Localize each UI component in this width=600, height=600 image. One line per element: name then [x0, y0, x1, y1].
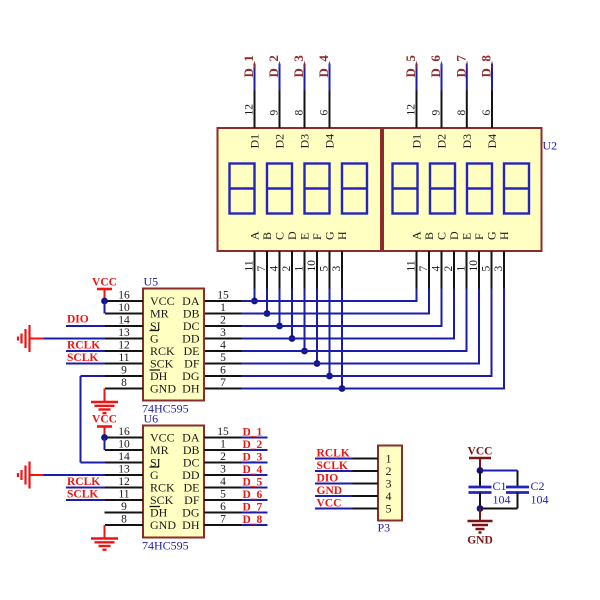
svg-text:12: 12	[406, 104, 418, 116]
U6 left pin 14 (SI)	[105, 451, 143, 463]
junction VCC/U6 pin16	[101, 434, 108, 441]
U6 right pin 3 (DD)	[204, 464, 242, 476]
part value 74HC595 (U5)	[142, 402, 189, 416]
net label D_4 (U6)	[243, 464, 263, 476]
net label DIO	[67, 314, 89, 326]
svg-text:D_5: D_5	[403, 55, 418, 78]
U5 left pin 14 (SI)	[105, 315, 143, 327]
svg-text:U6: U6	[144, 412, 159, 426]
svg-text:6: 6	[481, 110, 493, 116]
svg-text:15: 15	[217, 426, 229, 438]
svg-text:DH: DH	[182, 518, 200, 532]
svg-text:GND: GND	[150, 518, 176, 532]
P3 pin 1	[353, 452, 392, 466]
net label RCLK (U6)	[67, 476, 100, 488]
wire net D_7 (U6)	[242, 512, 268, 514]
P3 pin 3	[353, 477, 392, 491]
U5 right pin 5 (DF)	[204, 352, 242, 364]
svg-text:4: 4	[220, 340, 226, 352]
U6 left pin 8 (GND)	[105, 514, 143, 526]
wire net D_4	[329, 64, 331, 91]
wire segment row DD	[242, 338, 456, 340]
DS1 bottom pin 7 (B)	[256, 251, 268, 289]
wire VCC to U5 pin10	[104, 300, 106, 314]
DS1 bottom pin 1 (E)	[294, 251, 306, 289]
svg-text:D_6: D_6	[428, 55, 443, 78]
svg-text:14: 14	[118, 451, 130, 463]
svg-text:12: 12	[118, 340, 130, 352]
wire DS1 A to bus row 1	[254, 289, 256, 302]
net label RCLK (P3)	[317, 448, 350, 460]
svg-text:RCLK: RCLK	[67, 340, 100, 352]
wire DS1 E to bus row 5	[304, 289, 306, 352]
DS1 bottom pin 11 (A)	[244, 251, 256, 289]
junction DS1 F	[314, 360, 321, 367]
DS1 bottom pin 4 (C)	[269, 251, 281, 289]
wire C2 bottom lead	[517, 493, 519, 509]
U6 left pin 11 (SCK)	[105, 489, 143, 501]
wire U2 B to bus row 2	[428, 289, 430, 315]
display DS1 digit 3 segments	[305, 164, 330, 214]
U2 pin name E	[460, 233, 474, 240]
U6 right pin 2 (DC)	[204, 451, 242, 463]
net label D_8 (U6)	[243, 514, 263, 526]
DS1 pin name G	[323, 231, 337, 240]
svg-text:C1: C1	[493, 479, 507, 493]
svg-text:H: H	[497, 231, 511, 240]
U2 pin name D	[447, 231, 461, 240]
U2 top pin 12 (D1)	[406, 91, 418, 129]
DS1 pin name D4	[323, 134, 337, 149]
svg-text:8: 8	[294, 110, 306, 116]
svg-text:D_3: D_3	[291, 55, 306, 78]
svg-text:1: 1	[220, 439, 226, 451]
net label RCLK (U5)	[67, 340, 100, 352]
svg-text:D4: D4	[485, 134, 499, 149]
U5 right pin 7 (DH)	[204, 377, 242, 389]
net label D_1	[241, 55, 256, 77]
svg-text:D1: D1	[248, 134, 262, 149]
U5 left pin 13 (G)	[105, 327, 143, 339]
U6 left pin 9 (DH)	[105, 501, 143, 513]
svg-text:2: 2	[220, 315, 226, 327]
net label D_3	[291, 55, 306, 78]
wire C2 top lead	[517, 471, 519, 488]
power port VCC (U6)	[92, 414, 117, 438]
svg-text:3: 3	[331, 266, 343, 272]
wire U2 E to bus row 5	[466, 289, 468, 353]
net label D_6	[428, 55, 443, 78]
wire DS1 B to bus row 2	[266, 289, 268, 314]
wire C1 top lead	[479, 471, 481, 488]
junction DS1 D	[289, 335, 296, 342]
svg-text:5: 5	[319, 266, 331, 272]
svg-text:D_6: D_6	[243, 489, 263, 501]
display DS1 digit 2 segments	[267, 164, 292, 214]
DS1 bottom pin 10 (F)	[306, 251, 318, 289]
svg-text:7: 7	[256, 266, 268, 272]
wire U2 G to bus row 7	[491, 289, 493, 378]
svg-text:10: 10	[118, 439, 130, 451]
svg-text:12: 12	[118, 476, 130, 488]
U6 left pin 13 (G)	[105, 464, 143, 476]
net label D_7	[453, 55, 468, 78]
net label GND (P3)	[317, 485, 343, 497]
svg-text:6: 6	[220, 501, 226, 513]
junction DS1 A	[251, 298, 258, 305]
svg-text:3: 3	[493, 266, 505, 272]
junction DS1 B	[264, 310, 271, 317]
svg-text:8: 8	[121, 377, 127, 389]
wire net D_6	[441, 64, 443, 91]
DS1 top pin 9 (D2)	[269, 91, 281, 129]
U6 left pin 16 (VCC)	[105, 426, 143, 438]
display U2 digit 2 segments	[430, 164, 455, 214]
U5 left pin 8 (GND)	[105, 377, 143, 389]
designator C1	[493, 479, 507, 493]
svg-text:4: 4	[220, 476, 226, 488]
designator U2	[543, 139, 558, 153]
svg-text:11: 11	[406, 260, 418, 271]
display U2 digit 1 segments	[393, 164, 418, 214]
U5 left pin 16 (VCC)	[105, 290, 143, 302]
wire net D_1 (U6)	[242, 437, 268, 439]
wire DS1 G to bus row 7	[329, 289, 331, 377]
value 104 (C2)	[531, 493, 549, 507]
wire DS1 D to bus row 4	[291, 289, 293, 339]
net label D_5	[403, 55, 418, 78]
svg-text:4: 4	[431, 266, 443, 272]
wire SCLK to U5 pin11	[66, 363, 105, 365]
U2 pin name F	[472, 233, 486, 240]
junction VCC/U5 pin16	[101, 298, 108, 305]
svg-text:D_7: D_7	[453, 55, 468, 78]
ground symbol GND (caps)	[467, 509, 493, 547]
svg-text:RCLK: RCLK	[317, 448, 350, 460]
svg-text:VCC: VCC	[92, 414, 117, 426]
net label SCLK (U5)	[67, 352, 98, 364]
svg-text:SCLK: SCLK	[67, 352, 98, 364]
DS1 top pin 6 (D4)	[319, 91, 331, 129]
U2 pin name H	[497, 231, 511, 240]
wire segment row DE	[242, 350, 468, 352]
svg-text:10: 10	[306, 260, 318, 272]
svg-text:2: 2	[220, 451, 226, 463]
svg-text:16: 16	[118, 290, 130, 302]
U2 top pin 9 (D2)	[431, 91, 443, 129]
wire net D_7	[466, 64, 468, 91]
junction DS1 H	[339, 385, 346, 392]
svg-text:U5: U5	[144, 275, 159, 289]
U6 right pin 1 (DB)	[204, 439, 242, 451]
svg-text:D_3: D_3	[243, 452, 263, 464]
net label D_3 (U6)	[243, 452, 263, 464]
wire net SCLK (P3)	[315, 470, 353, 472]
U2 pin name B	[422, 232, 436, 240]
U5 right pin 4 (DE)	[204, 340, 242, 352]
DS1 pin name C	[273, 232, 287, 240]
svg-text:5: 5	[220, 352, 226, 364]
svg-text:P3: P3	[378, 521, 391, 535]
U6 right pin 15 (DA)	[204, 426, 242, 438]
part value 74HC595 (U6)	[142, 539, 189, 553]
U2 bottom pin 5 (G)	[481, 251, 493, 289]
U2 bottom pin 11 (A)	[406, 251, 418, 289]
svg-text:GND: GND	[317, 485, 343, 497]
svg-text:5: 5	[481, 266, 493, 272]
wire U2 D to bus row 4	[453, 289, 455, 340]
wire U2 F to bus row 6	[478, 289, 480, 365]
svg-text:4: 4	[269, 266, 281, 272]
U2 pin name G	[485, 231, 499, 240]
net label D_5 (U6)	[243, 477, 263, 489]
DS1 pin name E	[298, 233, 312, 240]
wire SCLK to U6 pin11	[66, 499, 105, 501]
svg-text:D_2: D_2	[266, 55, 281, 77]
svg-text:7: 7	[418, 266, 430, 272]
U5 left pin 9 (DH)	[105, 365, 143, 377]
DS1 pin name D1	[248, 134, 262, 149]
U5 left pin 12 (RCK)	[105, 340, 143, 352]
wire segment row DC	[242, 325, 443, 327]
P3 pin 5	[353, 502, 392, 516]
svg-text:74HC595: 74HC595	[142, 539, 189, 553]
svg-text:VCC: VCC	[92, 277, 117, 289]
wire RCLK to U5 pin12	[66, 350, 105, 352]
wire net D_4 (U6)	[242, 474, 268, 476]
wire U5 pin9 DH' to U6 pin14 SI	[81, 376, 106, 463]
svg-text:104: 104	[493, 493, 511, 507]
svg-text:12: 12	[244, 104, 256, 116]
wire C1 bottom lead	[479, 493, 481, 509]
U5 right pin 3 (DD)	[204, 327, 242, 339]
svg-text:7: 7	[220, 514, 226, 526]
capacitor C1	[469, 487, 492, 493]
svg-text:9: 9	[431, 110, 443, 116]
U6 right pin 7 (DH)	[204, 514, 242, 526]
svg-text:D_8: D_8	[243, 514, 263, 526]
wire RCLK to U6 pin12	[66, 487, 105, 489]
wire net GND (P3)	[315, 495, 353, 497]
U2 bottom pin 3 (H)	[493, 251, 505, 289]
wire segment row DF	[242, 363, 481, 365]
power port VCC (U5)	[92, 277, 117, 302]
display U2 digit 4 segments	[504, 164, 529, 214]
U5 pin names	[150, 294, 200, 396]
svg-text:9: 9	[121, 501, 127, 513]
net label DIO (P3)	[317, 473, 339, 485]
U5 right pin 1 (DB)	[204, 302, 242, 314]
svg-text:6: 6	[220, 365, 226, 377]
DS1 top pin 8 (D3)	[294, 91, 306, 129]
svg-text:GND: GND	[150, 382, 176, 396]
U6 left pin 12 (RCK)	[105, 476, 143, 488]
svg-text:D_4: D_4	[243, 464, 263, 476]
svg-text:13: 13	[118, 327, 130, 339]
P3 pin 2	[353, 464, 392, 478]
wire VCC to U6 pin10	[104, 437, 106, 451]
svg-text:D_1: D_1	[241, 55, 256, 77]
wire net RCLK (P3)	[315, 458, 353, 460]
svg-text:5: 5	[386, 502, 392, 516]
svg-text:SCLK: SCLK	[67, 489, 98, 501]
U2 bottom pin 4 (C)	[431, 251, 443, 289]
P3 pin 4	[353, 489, 392, 503]
ground symbol (U6 pin8 GND)	[91, 525, 118, 550]
wire net D_2	[279, 64, 281, 91]
net label D_7 (U6)	[243, 502, 263, 514]
wire U2 H to bus row 8	[503, 289, 505, 390]
wire ground to U6 pin13	[44, 474, 106, 476]
U5 right pin 6 (DG)	[204, 365, 242, 377]
net label SCLK (U6)	[67, 489, 98, 501]
wire net D_8	[491, 64, 493, 91]
value 104 (C1)	[493, 493, 511, 507]
wire net D_3	[304, 64, 306, 91]
wire net D_1	[254, 64, 256, 91]
connector P3 body	[378, 446, 402, 521]
net label VCC (P3)	[317, 498, 342, 510]
DS1 pin name D2	[273, 134, 287, 149]
net label SCLK (P3)	[317, 460, 348, 472]
svg-text:104: 104	[531, 493, 549, 507]
junction DS1 C	[276, 323, 283, 330]
svg-text:D2: D2	[273, 134, 287, 149]
svg-text:6: 6	[319, 110, 331, 116]
wire net D_2 (U6)	[242, 449, 268, 451]
svg-text:U2: U2	[543, 139, 558, 153]
DS1 pin name F	[310, 233, 324, 240]
wire DS1 H to bus row 8	[341, 289, 343, 389]
svg-text:D_7: D_7	[243, 502, 263, 514]
DS1 pin name A	[248, 231, 262, 240]
junction DS1 G	[326, 373, 333, 380]
DS1 pin name H	[335, 231, 349, 240]
DS1 pin name B	[260, 232, 274, 240]
U2 bottom pin 10 (F)	[468, 251, 480, 289]
svg-text:D_1: D_1	[243, 427, 263, 439]
U2 top pin 6 (D4)	[481, 91, 493, 129]
U6 left pin 10 (MR)	[105, 439, 143, 451]
svg-text:14: 14	[118, 315, 130, 327]
shift register U6 body	[143, 426, 204, 538]
svg-text:5: 5	[220, 489, 226, 501]
svg-text:1: 1	[220, 302, 226, 314]
svg-text:D3: D3	[298, 134, 312, 149]
DS1 bottom pin 5 (G)	[319, 251, 331, 289]
wire segment row DG	[242, 375, 493, 377]
ground symbol (U6 pin13 G)	[18, 462, 44, 489]
svg-text:D_8: D_8	[479, 55, 494, 78]
designator P3	[378, 521, 391, 535]
display module U2 body	[383, 128, 542, 251]
svg-text:8: 8	[456, 110, 468, 116]
wire U2 C to bus row 3	[441, 289, 443, 328]
power port VCC (caps)	[468, 446, 493, 471]
svg-text:3: 3	[220, 327, 226, 339]
svg-text:H: H	[335, 231, 349, 240]
wire net D_5	[416, 64, 418, 91]
U2 pin name C	[435, 232, 449, 240]
wire segment row DB	[242, 313, 431, 315]
wire net DIO (P3)	[315, 483, 353, 485]
U5 left pin 10 (MR)	[105, 302, 143, 314]
svg-text:D_2: D_2	[243, 439, 263, 451]
U6 right pin 5 (DF)	[204, 489, 242, 501]
svg-text:16: 16	[118, 426, 130, 438]
DS1 pin name D	[285, 231, 299, 240]
svg-text:D2: D2	[435, 134, 449, 149]
svg-text:D4: D4	[323, 134, 337, 149]
svg-text:D_4: D_4	[316, 55, 331, 78]
net label D_1 (U6)	[243, 427, 263, 439]
net label D_8	[479, 55, 494, 78]
designator U5	[144, 275, 159, 289]
U2 top pin 8 (D3)	[456, 91, 468, 129]
svg-text:15: 15	[217, 290, 229, 302]
net label D_6 (U6)	[243, 489, 263, 501]
svg-text:10: 10	[118, 302, 130, 314]
svg-text:VCC: VCC	[317, 498, 342, 510]
U2 pin name D4	[485, 134, 499, 149]
svg-text:2: 2	[281, 266, 293, 272]
display DS1 digit 4 segments	[342, 164, 367, 214]
wire segment row DH	[242, 388, 506, 390]
display DS1 digit 1 segments	[230, 164, 255, 214]
designator C2	[531, 479, 545, 493]
svg-text:7: 7	[220, 377, 226, 389]
svg-text:DH: DH	[182, 382, 200, 396]
display module DS1 body	[218, 128, 382, 251]
svg-text:C2: C2	[531, 479, 545, 493]
wire GND node	[480, 508, 518, 510]
U5 right pin 2 (DC)	[204, 315, 242, 327]
DS1 bottom pin 3 (H)	[331, 251, 343, 289]
svg-text:D1: D1	[410, 134, 424, 149]
svg-text:1: 1	[456, 266, 468, 272]
svg-text:DIO: DIO	[67, 314, 89, 326]
wire VCC node to C2	[480, 470, 518, 472]
U2 pin name D1	[410, 134, 424, 149]
U5 left pin 11 (SCK)	[105, 352, 143, 364]
U6 pin names	[150, 431, 200, 533]
svg-text:VCC: VCC	[468, 446, 493, 458]
ground symbol (U5 pin13 G)	[18, 325, 44, 352]
U2 bottom pin 7 (B)	[418, 251, 430, 289]
svg-text:11: 11	[244, 260, 256, 271]
U2 pin name A	[410, 231, 424, 240]
svg-text:2: 2	[443, 266, 455, 272]
junction VCC node	[477, 467, 484, 474]
svg-text:3: 3	[220, 464, 226, 476]
DS1 pin name D3	[298, 134, 312, 149]
wire net VCC (P3)	[315, 508, 353, 510]
junction DS1 E	[301, 348, 308, 355]
net label D_2 (U6)	[243, 439, 263, 451]
svg-text:11: 11	[118, 352, 129, 364]
U6 right pin 6 (DG)	[204, 501, 242, 513]
wire ground to U5 pin13	[44, 338, 106, 340]
wire U2 A to bus row 1	[416, 289, 418, 303]
capacitor C2	[506, 487, 529, 493]
U6 pin9 DH' stub	[105, 512, 144, 514]
ground symbol (U5 pin8 GND)	[91, 389, 118, 414]
designator U6	[144, 412, 159, 426]
wire net D_5 (U6)	[242, 487, 268, 489]
svg-text:DIO: DIO	[317, 473, 339, 485]
U5 right pin 15 (DA)	[204, 290, 242, 302]
svg-text:13: 13	[118, 464, 130, 476]
